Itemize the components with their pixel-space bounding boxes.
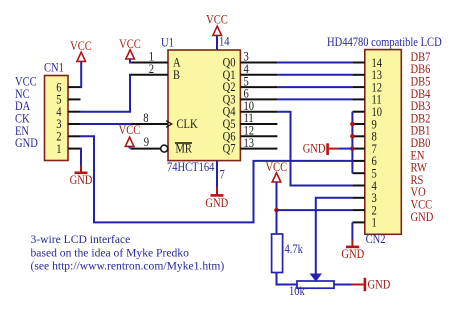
svg-text:13: 13 — [244, 135, 255, 150]
svg-text:Q7: Q7 — [223, 141, 236, 156]
power VCC symbol at U1 pin A — [119, 36, 141, 59]
wire DA: CN1 pin4 to U1 pin B — [80, 75, 132, 112]
U1 right pin stubs Q0-Q7 — [240, 63, 277, 149]
svg-text:CN1: CN1 — [44, 60, 64, 75]
wire EN: CN1 pin2 to LCD pin6 — [80, 136, 352, 222]
svg-text:GND: GND — [368, 277, 391, 292]
svg-text:VCC: VCC — [119, 122, 141, 137]
svg-text:GND: GND — [15, 135, 38, 150]
power VCC symbol at U1 pin 14 — [206, 12, 228, 36]
ground symbol at U1 pin 7 — [205, 187, 228, 210]
wire VCC to LCD pin 2 — [277, 209, 353, 211]
svg-text:74HCT164: 74HCT164 — [167, 159, 215, 174]
U1 pin name MR with overline — [175, 141, 192, 156]
ground symbol at CN1 pin 1 — [70, 166, 93, 187]
U1 left pin stubs A,B,CLK — [131, 63, 168, 125]
svg-text:(see http://www.rentron.com/My: (see http://www.rentron.com/Myke1.htm) — [31, 260, 225, 273]
wire VCC to CN1 pin 6 — [80, 61, 82, 88]
CN1 signal name labels — [15, 74, 38, 151]
wire GND to LCD tie — [338, 148, 352, 150]
LCD pin stubs — [352, 63, 364, 223]
U1 right pin numbers — [244, 49, 255, 150]
svg-text:VCC: VCC — [206, 12, 228, 27]
svg-text:1: 1 — [56, 141, 61, 156]
junction dots on tie — [350, 122, 355, 151]
U1 MR pin stub — [131, 148, 161, 150]
CN1 pin stubs — [68, 87, 81, 149]
svg-text:GND: GND — [341, 246, 364, 261]
svg-text:GND: GND — [303, 141, 326, 156]
wire CK: CN1 pin3 to U1 CLK — [80, 123, 132, 125]
svg-text:7: 7 — [220, 166, 226, 181]
wire R1 to potentiometer — [277, 273, 298, 285]
connector CN1 — [45, 76, 69, 161]
svg-text:U1: U1 — [161, 35, 174, 50]
wire wiper to LCD VO — [316, 198, 353, 274]
CN1 pin numbers 6-1 — [56, 79, 62, 156]
junction dot VCC to LCD VCC — [274, 208, 279, 213]
U1 MR inversion bubble — [161, 145, 168, 152]
svg-text:2: 2 — [149, 61, 154, 76]
LCD pin numbers 14-1 — [372, 55, 383, 230]
svg-text:1: 1 — [372, 215, 377, 230]
potentiometer wiper arrow — [311, 274, 321, 281]
svg-text:3-wire LCD interface: 3-wire LCD interface — [31, 233, 131, 246]
connector CN2 HD44780 LCD body — [365, 50, 402, 235]
wire CN1 pin1 to GND — [80, 149, 81, 167]
U1 left pin numbers 1,2,8,9 — [143, 49, 154, 150]
LCD pin name labels — [411, 49, 434, 224]
wire tie LCD pins 10,9,8,7,5 — [351, 112, 353, 174]
potentiometer R2 10k body — [297, 281, 334, 288]
resistor R1 4.7k — [272, 234, 283, 273]
ground symbol at LCD pin 1 — [341, 240, 364, 261]
power VCC symbol at R1 — [265, 159, 287, 182]
svg-text:GND: GND — [70, 172, 93, 187]
svg-text:8: 8 — [143, 110, 148, 125]
svg-text:based on the idea of Myke Pred: based on the idea of Myke Predko — [31, 246, 190, 259]
power VCC symbol at CN1 pin 6 — [70, 38, 92, 62]
power VCC symbol at U1 pin MR — [119, 122, 141, 146]
IC U1 74HCT164 body — [168, 50, 240, 161]
ground symbol at potentiometer — [351, 277, 390, 292]
svg-text:CN2: CN2 — [366, 231, 386, 246]
svg-text:B: B — [173, 67, 180, 82]
wire pot to GND — [334, 284, 352, 286]
U1 pin 14 wire — [216, 36, 218, 50]
U1 pin names Q0-Q7 — [223, 55, 236, 156]
svg-text:4.7k: 4.7k — [285, 241, 304, 256]
wire VCC to U1 pin A — [130, 59, 132, 63]
svg-text:GND: GND — [411, 209, 434, 224]
svg-text:9: 9 — [144, 134, 149, 149]
U1 pin 7 wire — [216, 161, 218, 188]
svg-text:VCC: VCC — [70, 38, 92, 53]
wire VCC to R1 — [276, 182, 278, 234]
svg-text:GND: GND — [205, 195, 228, 210]
svg-text:CLK: CLK — [177, 116, 199, 131]
wire Q4 to LCD RS — [277, 112, 352, 186]
svg-text:10k: 10k — [289, 283, 305, 298]
wires Q0-Q3 to LCD DB7-DB4 — [277, 63, 352, 100]
U1 clock wedge — [166, 121, 172, 128]
wire VCC to U1 pin MR — [129, 146, 131, 148]
ground symbol at LCD DB0 group — [303, 141, 339, 156]
wire LCD pin1 to GND — [351, 222, 353, 240]
svg-text:HD44780 compatible LCD: HD44780 compatible LCD — [327, 34, 442, 49]
